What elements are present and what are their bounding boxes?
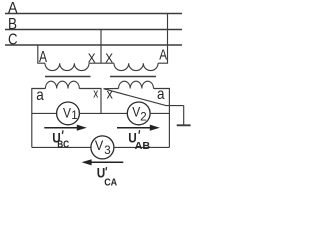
- wire: V3 rail right: [114, 146, 169, 148]
- svg-text:a: a: [36, 87, 44, 104]
- wire: bus C to T1 primary terminal A: [38, 45, 45, 63]
- svg-text:1: 1: [71, 110, 77, 122]
- svg-text:A: A: [159, 46, 167, 63]
- wire: meter rail middle (V1 to V2): [79, 112, 127, 114]
- wire: meter rail left (a to V1): [32, 112, 57, 114]
- transformer T1 core: [45, 76, 91, 78]
- svg-text:V: V: [63, 104, 72, 120]
- transformer T1 primary winding: [45, 63, 89, 70]
- svg-text:AB: AB: [135, 141, 151, 152]
- wire: V3 rail left: [32, 146, 91, 148]
- wire: primary junction bar X-X: [89, 62, 114, 64]
- ground: [183, 106, 185, 126]
- wire: T2 secondary x-lead diagonal to earth: [104, 89, 184, 106]
- transformer T2 core: [110, 76, 156, 78]
- transformer T1 secondary winding: [45, 81, 79, 88]
- wire: bus A to T2 primary terminal A: [158, 14, 168, 64]
- arrow U'BC: [44, 127, 78, 129]
- wire: T1 secondary x-lead down to meter rail: [79, 89, 101, 114]
- voltmeter V2: [127, 102, 150, 125]
- svg-text:CA: CA: [104, 178, 117, 187]
- svg-text:A: A: [39, 49, 47, 66]
- bus line C: [5, 44, 182, 46]
- svg-text:A: A: [8, 0, 18, 17]
- transformer T2 secondary winding: [119, 81, 154, 88]
- wire: T1 secondary a-lead down to V3 rail: [32, 89, 46, 148]
- arrow U'AB: [117, 127, 151, 129]
- wire: T2 secondary a-lead down to V3 rail: [154, 89, 170, 148]
- voltmeter V3: [91, 136, 114, 159]
- transformer T2 primary winding: [114, 63, 158, 70]
- svg-text:V: V: [95, 137, 104, 153]
- wire: meter rail right (V2 to a): [150, 112, 169, 114]
- bus line B: [5, 29, 182, 31]
- svg-text:2: 2: [140, 111, 146, 123]
- bus line A: [5, 13, 182, 15]
- svg-text:3: 3: [104, 145, 110, 157]
- arrow U'CA: [90, 161, 123, 163]
- voltmeter V1: [57, 102, 80, 125]
- wire: bus B to primary junction X-X: [100, 30, 102, 64]
- svg-text:BC: BC: [57, 140, 69, 151]
